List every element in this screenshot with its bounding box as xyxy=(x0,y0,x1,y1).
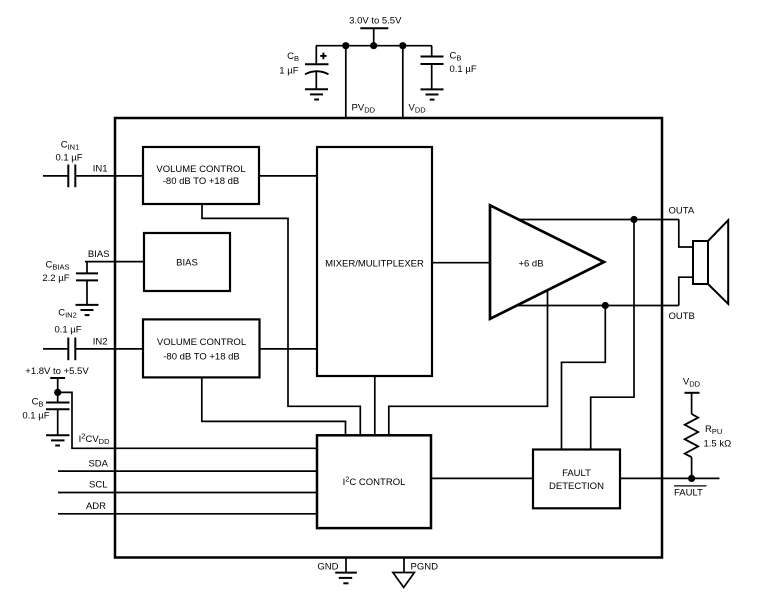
wire ADR xyxy=(58,513,317,515)
svg-text:MIXER/MULITPLEXER: MIXER/MULITPLEXER xyxy=(325,259,424,270)
wire OUTA xyxy=(519,219,679,221)
svg-text:VDD: VDD xyxy=(409,102,427,114)
svg-text:I2C CONTROL: I2C CONTROL xyxy=(343,475,406,489)
svg-text:OUTA: OUTA xyxy=(669,206,695,217)
svg-text:GND: GND xyxy=(317,562,338,573)
wire OUTA to speaker xyxy=(679,220,693,248)
power rail VDD (pull-up) xyxy=(683,377,701,415)
svg-text:+6 dB: +6 dB xyxy=(518,259,543,270)
ground (CBIAS) xyxy=(76,305,99,315)
svg-text:1.5 kΩ: 1.5 kΩ xyxy=(704,439,732,450)
wire VC1 control xyxy=(202,204,360,435)
svg-text:BIAS: BIAS xyxy=(88,249,110,260)
svg-text:0.1 µF: 0.1 µF xyxy=(22,411,49,422)
svg-text:2.2 µF: 2.2 µF xyxy=(42,273,69,284)
svg-text:-80 dB TO +18 dB: -80 dB TO +18 dB xyxy=(163,352,240,363)
svg-text:FAULT: FAULT xyxy=(674,487,703,498)
wire amp control xyxy=(389,291,548,436)
svg-text:RPU: RPU xyxy=(705,424,722,436)
power rail 3.0V to 5.5V xyxy=(349,16,402,46)
wire SCL xyxy=(58,492,317,494)
pin label FAULT (active low) xyxy=(674,486,707,498)
block VOLUME CONTROL 1 xyxy=(143,147,259,204)
capacitor CIN1 xyxy=(43,140,83,188)
svg-text:OUTB: OUTB xyxy=(669,311,695,322)
svg-text:3.0V to 5.5V: 3.0V to 5.5V xyxy=(349,16,402,27)
svg-text:0.1 µF: 0.1 µF xyxy=(450,64,477,75)
wire FAULT xyxy=(620,477,720,479)
wire GND stub xyxy=(345,558,347,573)
wire BIAS xyxy=(85,261,144,263)
ground GND xyxy=(335,573,357,584)
svg-text:SDA: SDA xyxy=(88,458,108,469)
svg-text:1 µF: 1 µF xyxy=(279,66,298,77)
IC outline xyxy=(115,118,662,558)
capacitor CB 0.1uF (VDD) xyxy=(421,46,477,90)
svg-text:0.1 µF: 0.1 µF xyxy=(54,325,81,336)
wire VC2 control xyxy=(202,377,346,435)
node bus-CB1 junction xyxy=(342,42,349,49)
wire OUTB to fault detection xyxy=(562,306,606,450)
svg-text:CB: CB xyxy=(287,51,299,63)
wire OUTB xyxy=(517,305,679,307)
resistor RPU 1.5k xyxy=(685,414,732,478)
svg-text:FAULT: FAULT xyxy=(562,468,591,479)
capacitor CB 0.1uF (I2C) xyxy=(22,392,69,435)
svg-text:CB: CB xyxy=(450,51,462,63)
svg-text:VOLUME CONTROL: VOLUME CONTROL xyxy=(157,337,246,348)
svg-text:DETECTION: DETECTION xyxy=(549,481,604,492)
wire pin PVDD xyxy=(345,46,347,118)
wire IN1 xyxy=(75,175,143,177)
node OUTB junction xyxy=(602,302,609,309)
ground (CB 1uF) xyxy=(305,89,328,99)
block FAULT DETECTION xyxy=(533,450,620,509)
capacitor CB 1uF (polarized) xyxy=(279,46,328,89)
wire pin VDD xyxy=(402,46,404,118)
node FAULT junction xyxy=(688,475,695,482)
wire PGND stub xyxy=(403,558,405,573)
node I2CVDD junction xyxy=(54,389,61,396)
svg-text:IN2: IN2 xyxy=(93,337,108,348)
capacitor CBIAS xyxy=(42,260,98,305)
svg-text:IN1: IN1 xyxy=(93,164,108,175)
node bus-CB2 junction xyxy=(399,42,406,49)
wire I2C to fault detection xyxy=(431,477,533,479)
svg-text:I2CVDD: I2CVDD xyxy=(79,432,110,447)
wire IN2 xyxy=(75,348,143,350)
op-amp +6dB xyxy=(490,205,604,318)
block VOLUME CONTROL 2 xyxy=(143,319,260,377)
wire OUTA to fault detection xyxy=(591,220,634,450)
block I2C CONTROL xyxy=(317,435,431,528)
svg-text:CB: CB xyxy=(32,397,44,409)
svg-text:CIN1: CIN1 xyxy=(61,140,80,152)
wire VC1 to mixer xyxy=(259,175,317,177)
svg-text:SCL: SCL xyxy=(89,480,107,491)
block BIAS xyxy=(144,233,230,291)
svg-text:CIN2: CIN2 xyxy=(58,308,77,320)
node OUTA junction xyxy=(630,216,637,223)
wire mixer to amp xyxy=(432,262,490,264)
node bus center junction xyxy=(370,42,377,49)
wire I2CVDD xyxy=(58,392,317,448)
wire SDA xyxy=(58,470,317,472)
wire supply bus xyxy=(316,45,432,47)
svg-text:PVDD: PVDD xyxy=(352,102,376,114)
svg-text:VOLUME CONTROL: VOLUME CONTROL xyxy=(156,164,245,175)
svg-text:0.1 µF: 0.1 µF xyxy=(55,153,82,164)
capacitor CIN2 xyxy=(43,308,82,361)
power rail +1.8V to +5.5V xyxy=(25,366,89,392)
wire VC2 to mixer xyxy=(260,348,318,350)
svg-text:BIAS: BIAS xyxy=(176,258,198,269)
block MIXER/MULITPLEXER xyxy=(317,147,432,376)
ground (CB I2C) xyxy=(46,435,70,445)
svg-text:PGND: PGND xyxy=(411,562,439,573)
wire mixer control xyxy=(374,376,376,435)
ground (CB 0.1uF) xyxy=(421,89,444,99)
wire OUTB to speaker xyxy=(679,277,693,305)
svg-text:-80 dB TO +18 dB: -80 dB TO +18 dB xyxy=(163,176,240,187)
svg-text:ADR: ADR xyxy=(86,501,106,512)
speaker xyxy=(693,220,728,304)
svg-text:VDD: VDD xyxy=(683,377,701,389)
svg-text:CBIAS: CBIAS xyxy=(46,260,70,272)
ground PGND (open triangle) xyxy=(393,573,415,588)
svg-text:+1.8V to +5.5V: +1.8V to +5.5V xyxy=(25,366,89,377)
